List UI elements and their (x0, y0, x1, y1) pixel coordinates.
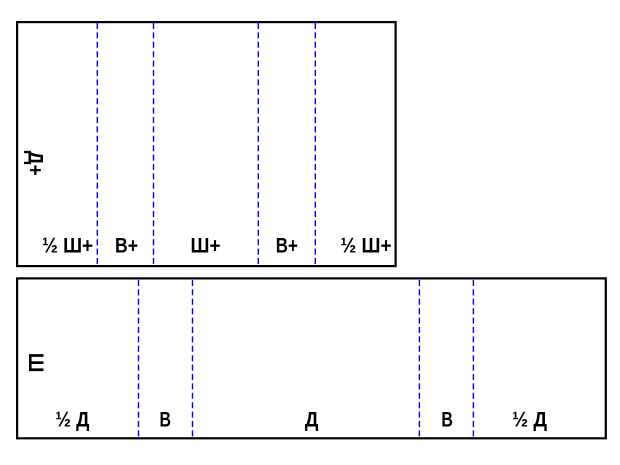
svg-text:½ Ш+: ½ Ш+ (341, 234, 392, 258)
bottom panel fold line 3 (418, 280, 420, 438)
bottom panel fold line 1 (138, 280, 140, 438)
svg-text:Ш: Ш (24, 353, 48, 373)
svg-text:Ш+: Ш+ (191, 234, 221, 258)
svg-text:Д: Д (305, 408, 319, 432)
bottom panel fold line 2 (192, 280, 194, 438)
top panel fold line 1 (96, 23, 98, 266)
svg-text:½ Д: ½ Д (55, 408, 89, 432)
top panel fold line 2 (153, 23, 155, 266)
top panel fold line 4 (314, 23, 316, 266)
bottom panel fold line 4 (472, 280, 474, 438)
svg-text:В: В (441, 408, 453, 432)
top panel outline (17, 22, 396, 266)
svg-text:В+: В+ (115, 234, 138, 258)
svg-text:В: В (160, 408, 172, 432)
bottom panel outline (17, 278, 606, 438)
svg-text:В+: В+ (276, 234, 298, 258)
svg-text:Д+: Д+ (24, 151, 48, 176)
top panel fold line 3 (257, 23, 259, 266)
svg-text:½ Ш+: ½ Ш+ (42, 234, 93, 258)
svg-text:½ Д: ½ Д (512, 408, 547, 432)
